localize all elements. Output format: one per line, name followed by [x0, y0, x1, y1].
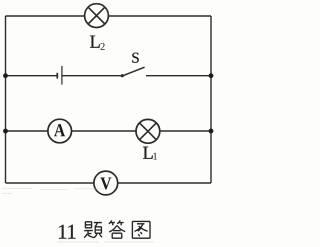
wire: top side of loop — [6, 15, 212, 17]
junction node: right battery branch — [209, 73, 214, 78]
caption hanzi: 图 (figure) — [132, 221, 150, 238]
caption hanzi: 答 (answer) — [109, 220, 125, 238]
battery cell: long positive plate — [61, 66, 63, 85]
switch S: blade — [122, 67, 144, 76]
label L1 — [143, 147, 153, 159]
scan artifact: faint smear under caption — [57, 241, 154, 243]
lamp L2 — [85, 4, 109, 28]
caption hanzi: 题 (question) — [84, 222, 102, 238]
wire: left side of loop — [5, 16, 7, 183]
lamp L1 — [136, 119, 160, 143]
junction node: right meter branch — [209, 129, 214, 134]
wire: battery branch left segment — [6, 75, 58, 77]
switch S: left contact dot — [121, 74, 124, 77]
junction node: left meter branch — [3, 129, 8, 134]
wire: switch right segment — [146, 75, 211, 77]
scan artifact: faint streaks below bottom wire — [2, 189, 104, 194]
wire: battery to switch — [62, 75, 122, 77]
ammeter A — [48, 119, 72, 143]
voltmeter V — [94, 171, 118, 195]
junction node: left battery branch — [3, 73, 8, 78]
label S — [132, 53, 138, 63]
label L2 — [90, 36, 100, 48]
caption: "11" — [59, 225, 66, 239]
wire: bottom side of loop — [6, 182, 212, 184]
wire: meter branch (ammeter + L1) — [6, 130, 212, 132]
wire: right side of loop — [210, 16, 212, 183]
battery cell: short negative plate — [56, 73, 58, 79]
